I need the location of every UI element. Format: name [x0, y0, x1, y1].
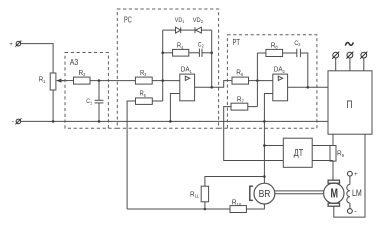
field winding terminal -	[348, 206, 358, 215]
wire VD1 to VD2	[181, 29, 195, 31]
wire R9 to motor	[332, 161, 334, 180]
svg-text:C3: C3	[294, 40, 300, 47]
wire R1 bottom to rail	[52, 90, 54, 121]
field winding terminal +	[348, 171, 359, 178]
svg-text:R9: R9	[337, 151, 345, 158]
brush bottom of M	[328, 203, 339, 206]
wire R7 to current sensor	[224, 107, 284, 161]
wire R4 line left	[163, 52, 173, 54]
brush top of M	[328, 180, 339, 183]
wire R5 to tacho divider	[127, 101, 135, 209]
resistor R8	[257, 42, 282, 56]
wire R11 top lead	[205, 177, 265, 187]
svg-text:DA1: DA1	[181, 67, 192, 74]
wire M to П return	[334, 134, 365, 217]
svg-text:ДТ: ДТ	[294, 148, 303, 159]
inductor LM field winding	[347, 184, 362, 203]
wire rail node down to tacho/sensor node	[263, 121, 265, 183]
wire R11 bottom lead	[204, 202, 206, 209]
svg-text:R5: R5	[140, 91, 147, 98]
AC terminal 2	[346, 52, 353, 71]
resistor R4	[173, 43, 189, 57]
svg-text:-: -	[12, 117, 15, 126]
diode VD1	[163, 17, 185, 33]
node DA1 output	[210, 86, 213, 89]
wire PT summing riser	[256, 53, 258, 107]
wire summing riser (feedback left leg)	[162, 30, 164, 101]
svg-text:PT: PT	[233, 38, 241, 47]
block PC dashed box	[117, 9, 218, 128]
node sensor-tacho riser top	[263, 144, 266, 147]
svg-text:R3: R3	[140, 70, 147, 77]
op-amp DA1	[180, 67, 195, 101]
svg-text:VD1: VD1	[175, 17, 185, 24]
motor M	[324, 183, 344, 203]
svg-text:M: M	[331, 186, 339, 201]
node C1-rail	[98, 120, 101, 123]
wire bottom tacho line left	[127, 208, 230, 210]
wire DA2 output to П	[288, 86, 328, 88]
wire DA1 ref input to rail	[170, 94, 179, 122]
block PT dashed box	[227, 35, 317, 129]
resistor R7	[231, 96, 248, 110]
wire terminal to LM coil	[349, 176, 351, 184]
resistor R3	[135, 70, 152, 84]
shaft BR to M	[275, 191, 324, 194]
node R2-C1	[98, 79, 101, 82]
svg-text:R2: R2	[79, 70, 87, 77]
svg-text:C1: C1	[86, 98, 92, 105]
svg-text:DA2: DA2	[274, 67, 285, 74]
svg-text:R6: R6	[236, 70, 244, 77]
node DA2 ref-rail	[263, 120, 266, 123]
resistor R6	[232, 70, 249, 85]
svg-text:П: П	[347, 99, 353, 111]
svg-text:R11: R11	[190, 191, 199, 198]
node feedback right	[210, 52, 213, 55]
wire DA1 output to R6	[195, 81, 232, 88]
wire R10 to BR bottom	[246, 204, 264, 209]
svg-text:R8: R8	[271, 42, 279, 49]
wire R3 to DA1 input	[152, 80, 180, 82]
node DA1 ref-rail	[169, 120, 172, 123]
op-amp DA2	[273, 67, 288, 101]
converter П box	[328, 71, 372, 134]
svg-text:PC: PC	[124, 16, 132, 25]
svg-text:A3: A3	[70, 58, 79, 67]
current sensor ДТ box	[283, 138, 312, 167]
resistor R10	[230, 200, 246, 213]
capacitor C2	[198, 42, 212, 57]
svg-text:R1: R1	[39, 77, 46, 84]
wire П to R9	[332, 134, 334, 145]
resistor R11	[190, 186, 209, 202]
node R11-bottom line	[204, 208, 207, 211]
wire R7 right lead	[248, 106, 258, 108]
wire ДТ right top lead	[312, 145, 333, 147]
wire LM coil to terminal -	[349, 203, 351, 209]
wire feedback right leg	[211, 30, 213, 87]
resistor R2	[74, 70, 91, 84]
terminal + (input)	[9, 41, 21, 48]
wire + terminal to R1 top	[21, 44, 53, 73]
block A3 dashed box	[65, 53, 108, 129]
resistor R5	[136, 91, 153, 105]
wiper arrow of R1	[60, 80, 64, 82]
diode VD2	[193, 17, 212, 33]
wire R5 right lead	[152, 100, 162, 102]
node summing junction DA1	[161, 79, 164, 82]
AC supply symbol ~	[345, 42, 353, 45]
wire 0V rail	[21, 120, 328, 122]
AC terminal 1	[332, 52, 339, 71]
resistor R9	[330, 146, 345, 162]
svg-text:C2: C2	[198, 42, 204, 49]
wire DA2 ref input	[264, 94, 272, 122]
svg-text:+: +	[9, 41, 13, 48]
svg-text:BR: BR	[259, 189, 271, 200]
dashed bottom bridge PC-PT	[219, 127, 228, 129]
wire R4 to C2	[189, 52, 200, 54]
wire R1 wiper to R2	[60, 80, 74, 82]
dashed bottom bridge A3-PC	[108, 127, 117, 129]
terminal - (input)	[12, 117, 22, 126]
svg-text:-: -	[354, 206, 357, 215]
node summing junction DA2	[256, 79, 259, 82]
wire R2 to R3	[90, 80, 135, 82]
svg-text:+: +	[354, 171, 358, 178]
resistor R1 potentiometer	[39, 73, 56, 90]
node R1-rail	[52, 120, 55, 123]
brush bracket of BR	[250, 186, 253, 200]
wire ДТ right bottom lead	[312, 160, 333, 162]
AC terminal 3	[360, 52, 367, 71]
capacitor C3	[283, 40, 308, 87]
node BR top / R11 tap	[263, 175, 266, 178]
svg-text:R7: R7	[237, 96, 245, 103]
svg-text:VD2: VD2	[193, 17, 204, 24]
tacho generator BR	[254, 183, 275, 204]
wire ДТ left top lead	[264, 145, 283, 147]
svg-text:R4: R4	[177, 43, 184, 50]
node feedback left	[161, 52, 164, 55]
svg-text:LM: LM	[352, 187, 362, 198]
svg-text:R10: R10	[232, 200, 242, 207]
node DA2 output	[307, 86, 310, 89]
wire R6 to DA2 input	[249, 80, 273, 82]
capacitor C1	[86, 81, 103, 122]
